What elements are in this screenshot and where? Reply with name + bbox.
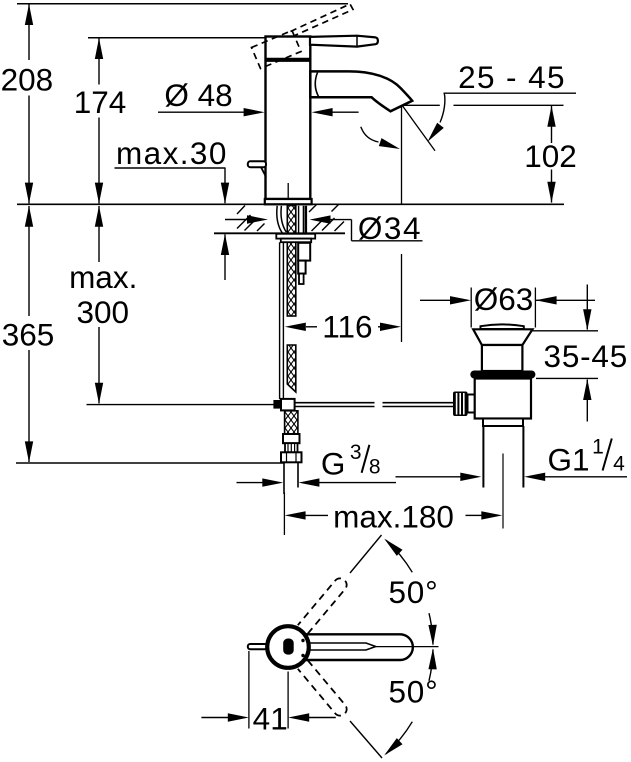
svg-text:174: 174 xyxy=(74,84,127,120)
svg-text:max.30: max.30 xyxy=(116,135,228,171)
svg-text:365: 365 xyxy=(2,317,55,353)
svg-text:max.180: max.180 xyxy=(333,498,454,534)
svg-text:50°: 50° xyxy=(388,574,438,610)
svg-text:Ø34: Ø34 xyxy=(358,210,422,246)
svg-text:208: 208 xyxy=(1,62,54,98)
svg-text:25 - 45: 25 - 45 xyxy=(458,59,566,95)
svg-text:3: 3 xyxy=(350,441,362,464)
svg-text:G1: G1 xyxy=(548,442,590,478)
svg-text:300: 300 xyxy=(77,294,130,330)
svg-text:1: 1 xyxy=(592,435,604,458)
svg-text:max.: max. xyxy=(69,259,137,295)
svg-text:Ø 48: Ø 48 xyxy=(164,77,232,113)
svg-text:116: 116 xyxy=(322,309,372,345)
svg-text:4: 4 xyxy=(613,453,625,476)
svg-text:8: 8 xyxy=(369,455,381,478)
svg-text:Ø63: Ø63 xyxy=(474,281,534,317)
svg-text:35-45: 35-45 xyxy=(544,338,629,374)
svg-text:G: G xyxy=(321,446,346,482)
svg-text:102: 102 xyxy=(524,138,577,174)
svg-text:41: 41 xyxy=(253,700,288,736)
svg-text:50°: 50° xyxy=(388,673,438,709)
